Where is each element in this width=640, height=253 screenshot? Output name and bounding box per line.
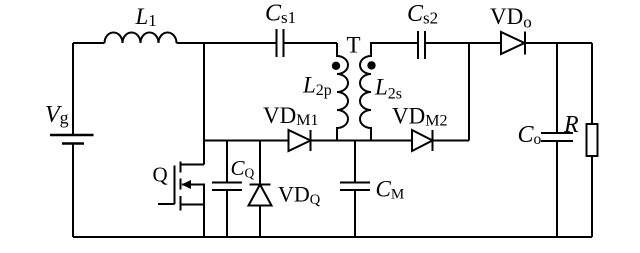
diode VDM2	[412, 130, 433, 151]
channel segments	[180, 162, 182, 211]
wire output capacitor branch	[556, 43, 558, 237]
wire junction down from top rail to middle bus right end	[468, 43, 470, 141]
polarity dot secondary	[367, 61, 375, 69]
capacitor CQ	[212, 183, 242, 191]
capacitor Cs1	[277, 29, 284, 57]
transformer T primary winding L2p	[337, 43, 348, 141]
svg-text:Vg: Vg	[45, 102, 69, 128]
svg-text:VDQ: VDQ	[278, 181, 321, 208]
middle bus wire center	[311, 140, 413, 142]
body line with source tie	[182, 185, 204, 205]
diode VDM1	[289, 130, 311, 151]
svg-text:L1: L1	[135, 4, 157, 30]
bottom rail wire	[73, 236, 592, 238]
svg-text:VDM1: VDM1	[263, 103, 318, 129]
node A: vertical from top rail to MOSFET drain	[203, 43, 205, 165]
capacitor Cs2	[418, 31, 425, 59]
diode VDQ	[249, 185, 272, 206]
middle bus wire left	[204, 140, 289, 142]
capacitor CM branch wire	[354, 141, 356, 238]
wire L1 to Cs1 through node at drain branch	[177, 42, 277, 44]
resistor R	[587, 124, 598, 156]
transformer T secondary winding L2s	[360, 43, 418, 141]
svg-text:L2s: L2s	[374, 75, 402, 103]
svg-text:VDM2: VDM2	[392, 104, 447, 130]
capacitor Co	[541, 133, 573, 141]
wire Cs2 to diode VDo	[426, 42, 501, 44]
svg-text:T: T	[347, 33, 361, 58]
svg-text:Cs2: Cs2	[407, 1, 438, 28]
svg-text:R: R	[563, 112, 579, 138]
svg-text:Co: Co	[518, 122, 542, 148]
middle bus wire right	[433, 140, 470, 142]
diode VDo	[501, 32, 525, 55]
inductor L1	[105, 33, 177, 44]
gate bar and lead	[158, 166, 175, 205]
battery Vg plates	[50, 135, 94, 144]
svg-text:Cs1: Cs1	[265, 0, 296, 27]
svg-text:VDo: VDo	[490, 4, 532, 32]
svg-text:CQ: CQ	[231, 156, 255, 180]
drain lead	[181, 164, 205, 166]
diode VDQ branch wire	[259, 141, 261, 238]
source lead	[181, 205, 205, 238]
wire VDo to right rail	[525, 42, 592, 44]
svg-text:CM: CM	[376, 176, 405, 202]
svg-text:Q: Q	[153, 162, 168, 186]
voltage source Vg wires	[72, 43, 74, 237]
wire resistor to bottom rail	[591, 156, 593, 237]
wire Cs1 to transformer primary	[285, 42, 338, 44]
capacitor CM	[340, 183, 370, 191]
svg-text:L2p: L2p	[302, 73, 332, 100]
wire right rail top to resistor	[591, 43, 593, 124]
wire top rail from Vg to L1	[73, 42, 105, 44]
transistor Q MOSFET	[158, 162, 204, 238]
polarity dot primary	[332, 62, 340, 70]
body arrow of Q	[182, 180, 192, 189]
capacitor CQ branch wire	[226, 141, 228, 238]
